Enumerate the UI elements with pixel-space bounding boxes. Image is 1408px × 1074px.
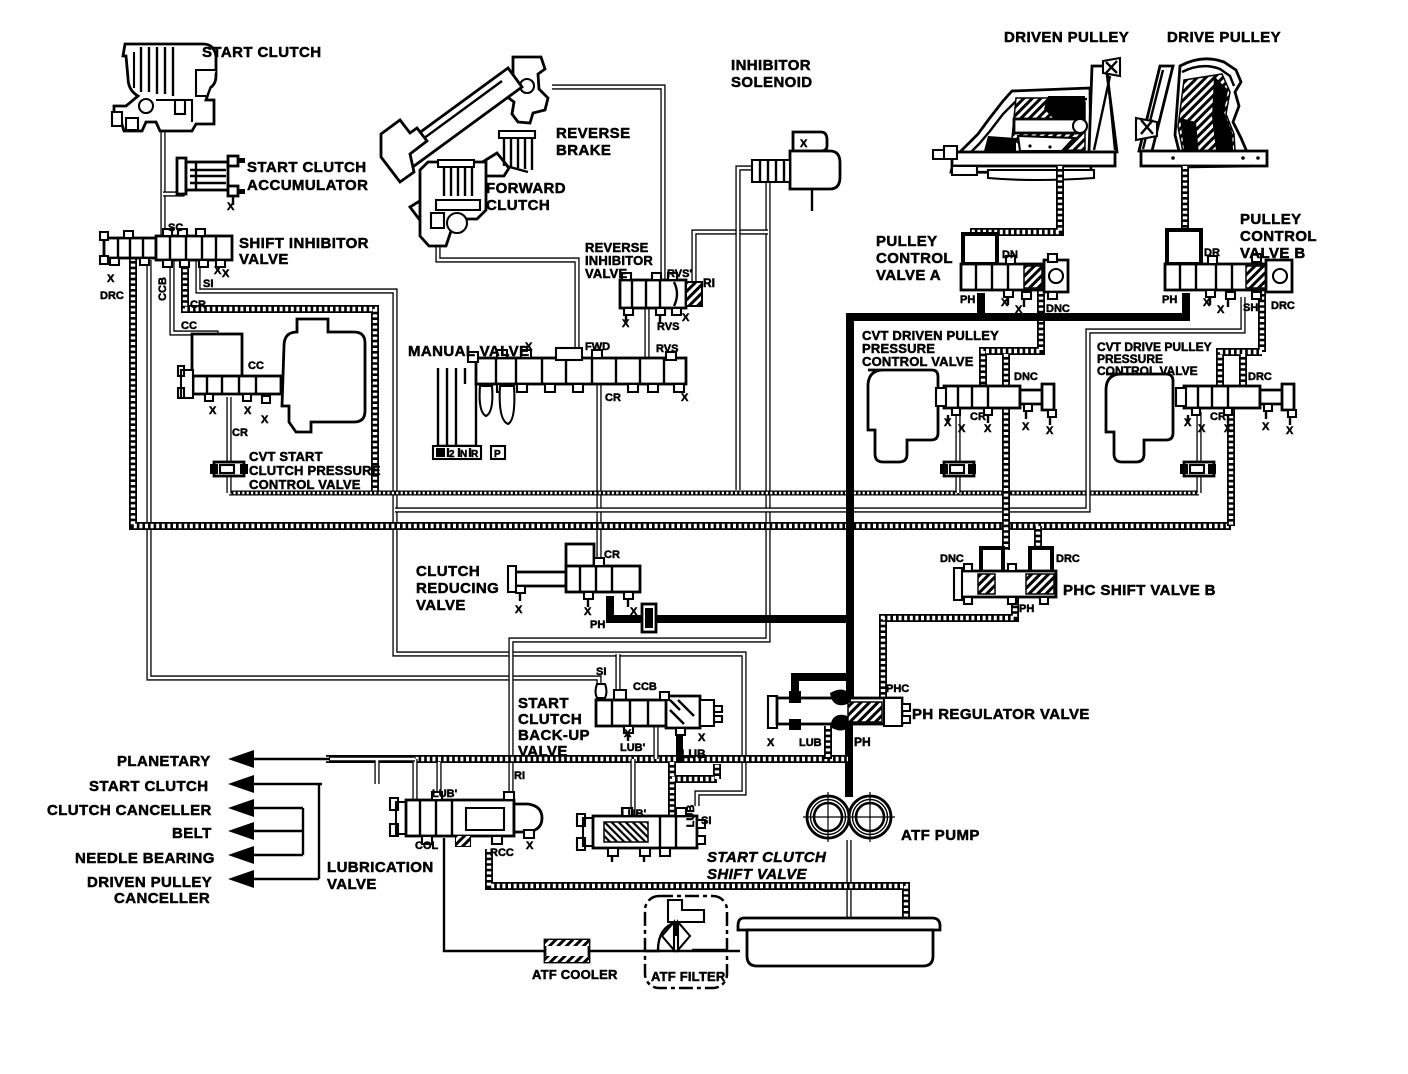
svg-text:CCB: CCB [157,277,169,301]
drive pulley left fitting [1136,118,1157,140]
svg-text:CONTROL: CONTROL [1240,228,1317,245]
arrow belt [228,822,254,840]
svg-text:PHC: PHC [886,683,909,695]
ATF cooler [545,940,589,962]
svg-text:VALVE: VALVE [327,876,377,893]
driven pulley top fitting [1103,58,1120,76]
wire PH regulator to ATF pump [845,722,853,797]
manual valve lever [438,368,514,446]
svg-text:LUBRICATION: LUBRICATION [327,859,434,876]
svg-text:PH: PH [854,735,871,749]
PHC shift valve B [954,564,1056,604]
svg-text:PH: PH [590,619,605,631]
svg-text:LUB': LUB' [620,742,646,754]
svg-text:VALVE B: VALVE B [1240,245,1306,262]
svg-text:DNC: DNC [1046,303,1070,315]
svg-text:CONTROL VALVE: CONTROL VALVE [862,354,974,369]
svg-text:RCC: RCC [490,847,514,859]
svg-text:RVS: RVS [656,343,678,355]
svg-text:CR: CR [970,411,986,423]
wire CR distribution line [229,491,1199,496]
svg-text:PH: PH [1019,603,1034,615]
svg-text:RI: RI [703,276,715,290]
svg-text:X: X [261,414,269,426]
svg-text:X: X [515,604,523,616]
wire drive PCV restrictor drain [1196,412,1201,493]
svg-text:PHC SHIFT VALVE B: PHC SHIFT VALVE B [1063,582,1216,599]
svg-text:VALVE: VALVE [416,597,466,614]
drive pulley bottom plate [1141,151,1267,166]
manual valve body [468,348,686,392]
wire CC valve drain through restrictor [226,397,231,493]
wire driven PCV restrictor drain [955,477,960,493]
wire DRC hatched main band [133,258,1231,526]
svg-text:CC: CC [181,320,197,332]
CVT start clutch pressure control valve CC chamber [192,334,242,378]
driven PCV spool [936,384,1056,425]
svg-text:START CLUTCH: START CLUTCH [202,44,322,61]
svg-text:INHIBITOR: INHIBITOR [731,57,811,74]
svg-text:SI: SI [701,815,711,827]
svg-text:CONTROL: CONTROL [876,250,953,267]
svg-text:COL: COL [415,840,439,852]
svg-text:X: X [214,265,222,277]
ATF strainer pan [738,918,940,966]
svg-text:BRAKE: BRAKE [556,142,611,159]
svg-text:ATF COOLER: ATF COOLER [532,967,618,982]
svg-text:START: START [518,695,569,712]
svg-text:X: X [1046,425,1054,437]
svg-text:R: R [471,449,479,460]
svg-text:PH: PH [960,294,975,306]
svg-text:CONTROL VALVE: CONTROL VALVE [249,477,361,492]
svg-text:SH: SH [1243,302,1258,314]
wire DRC from pulley control valve B cap [1220,291,1262,526]
driven pulley cone disc [1089,66,1117,152]
svg-text:X: X [525,341,533,353]
svg-text:X: X [984,423,992,435]
wire inhibitor solenoid drop to CR line [738,168,752,490]
svg-text:DRC: DRC [1248,371,1272,383]
clutch reducing valve [508,558,640,607]
wire planetary feed double [330,759,415,784]
drive PCV spool [1176,384,1296,425]
pulley control valve A [961,234,1068,307]
svg-text:X: X [1184,417,1192,429]
svg-text:DNC: DNC [940,553,964,565]
wire CR line from shift inhibitor [185,258,375,492]
svg-text:DRIVE PULLEY: DRIVE PULLEY [1167,29,1281,46]
svg-text:DRC: DRC [1271,300,1295,312]
restrictor drive PCV [1180,462,1216,476]
svg-text:X: X [526,840,534,852]
svg-text:X: X [1198,423,1206,435]
svg-text:X: X [681,392,689,404]
wire PH heavy line clutch reducing valve to regulator trunk [610,596,850,619]
svg-text:CLUTCH: CLUTCH [518,711,582,728]
svg-text:PH: PH [1162,294,1177,306]
restrictor CR drain [210,462,248,476]
svg-text:X: X [1022,421,1030,433]
restrictor driven PCV [940,462,976,476]
svg-text:DRIVEN PULLEY: DRIVEN PULLEY [87,874,212,891]
wire cooler line lubrication valve to strainer [444,838,740,951]
CVT driven pulley pressure control valve solenoid [868,370,938,462]
svg-text:X: X [222,268,230,280]
drive pulley shaft [1181,166,1189,260]
wire SI line from shift inhibitor long run [198,260,744,806]
arrow needle bearing [228,846,254,864]
svg-text:CONTROL VALVE: CONTROL VALVE [1097,364,1198,378]
wire RCC return line to strainer [489,849,906,918]
wire LUB back-up drop [676,724,683,762]
svg-text:VALVE: VALVE [239,251,289,268]
CC control valve spool [178,366,281,403]
svg-text:CR: CR [1210,411,1226,423]
svg-text:CLUTCH PRESSURE: CLUTCH PRESSURE [249,463,381,478]
ATF pump [803,792,895,842]
svg-text:CR: CR [605,392,621,404]
svg-text:DNC: DNC [1014,371,1038,383]
wire CR manual valve to clutch reducing valve [596,384,601,568]
svg-text:X: X [1286,425,1294,437]
svg-text:RI: RI [514,770,525,782]
svg-text:PULLEY: PULLEY [876,233,938,250]
drive pulley cone disc [1139,66,1173,151]
svg-text:ATF FILTER: ATF FILTER [651,969,726,984]
svg-text:CLUTCH: CLUTCH [486,197,550,214]
wire CC from shift inhibitor to CC chamber [172,258,216,340]
wire PH elbow into regulator [795,677,850,699]
svg-text:LUB': LUB' [621,808,647,820]
svg-text:CLUTCH: CLUTCH [416,563,480,580]
svg-text:X: X [800,138,808,150]
svg-text:CCB: CCB [633,681,657,693]
svg-text:X: X [682,312,690,324]
pulley control valve B [1165,230,1292,307]
svg-text:X: X [958,423,966,435]
svg-text:DN: DN [1002,249,1018,261]
PH regulator valve [768,689,910,730]
svg-text:NEEDLE BEARING: NEEDLE BEARING [75,850,215,867]
wire FWD forward clutch to manual valve [438,230,577,358]
driven pulley shaft sleeve [1014,119,1078,133]
svg-text:SC: SC [168,222,183,234]
arrow start clutch [228,775,254,793]
svg-text:SI: SI [596,666,606,678]
wire PHC hatched from PHC shift valve to regulator [883,597,1015,697]
wire pump suction to strainer [846,840,851,918]
PHC shift valve B chambers [981,548,1052,572]
svg-text:BELT: BELT [172,825,212,842]
svg-text:PLANETARY: PLANETARY [117,753,211,770]
svg-text:SHIFT VALVE: SHIFT VALVE [707,866,808,883]
svg-text:DRC: DRC [1056,553,1080,565]
driven pulley bottom plate [952,152,1115,166]
svg-text:X: X [1203,297,1211,309]
wire PH heavy top line between pulley control valves [850,293,1186,317]
reverse inhibitor valve [620,273,702,323]
wire SH line from pulley control valve B [395,297,1243,510]
arrow clutch canceller [228,799,254,817]
svg-text:SOLENOID: SOLENOID [731,74,813,91]
wire DRC band to PHC shift valve chamber [1034,526,1042,550]
wire LUB' back-up to shift valve [633,726,656,820]
CC solenoid body [282,319,365,432]
wire CCB tee to back-up valve [615,654,620,697]
svg-text:X: X [227,201,235,213]
svg-text:LUB': LUB' [432,788,458,800]
gear selector boxes [433,446,505,460]
svg-text:ACCUMULATOR: ACCUMULATOR [247,177,368,194]
svg-text:START CLUTCH: START CLUTCH [247,159,367,176]
arrow driven pulley canceller [228,870,254,888]
wire RI branch to reverse inhibitor valve [694,232,768,282]
wire LUB hatched return line [326,755,848,763]
svg-text:2: 2 [449,449,455,460]
wire DNC down to PHC shift valve [1002,404,1010,550]
svg-text:VALVE: VALVE [518,743,568,760]
svg-text:SHIFT INHIBITOR: SHIFT INHIBITOR [239,235,369,252]
node clutch canceller arrow lines [250,808,303,855]
svg-text:X: X [584,606,592,618]
driven pulley [933,58,1120,262]
svg-text:X: X [209,405,217,417]
lubrication valve [390,792,542,846]
svg-text:RVS': RVS' [667,268,692,280]
wire CCB line from shift inhibitor to back-up valve SI [149,260,599,690]
svg-text:X: X [944,417,952,429]
svg-text:START CLUTCH: START CLUTCH [707,849,827,866]
svg-text:LUB: LUB [681,747,706,761]
svg-text:LUB: LUB [685,805,697,828]
svg-text:PULLEY: PULLEY [1240,211,1302,228]
clutch reducing valve CR chamber [566,544,594,568]
svg-text:START CLUTCH: START CLUTCH [89,778,209,795]
svg-text:FORWARD: FORWARD [486,180,566,197]
wire driven PCV drain to restrictor [955,412,960,462]
svg-text:X: X [698,732,706,744]
svg-text:CC: CC [248,360,264,372]
node PH trunk vertical [846,313,854,702]
start clutch shift valve [577,808,705,862]
svg-text:DR: DR [1204,247,1220,259]
svg-text:X: X [767,737,775,749]
svg-text:CVT START: CVT START [249,449,323,464]
svg-text:MANUAL VALVE: MANUAL VALVE [408,343,529,360]
driven pulley shaft crank [974,166,1060,262]
svg-text:FWD: FWD [585,341,610,353]
shift inhibitor valve [100,229,232,267]
wire SC start clutch to shift inhibitor valve [160,128,165,236]
node start clutch arrow line [250,784,322,879]
start clutch assembly [112,44,216,131]
drive pulley [1136,59,1267,260]
wire lubrication valve feed drop [415,759,439,800]
svg-text:CR: CR [232,427,248,439]
inhibitor solenoid [752,132,840,211]
start clutch back-up valve [596,684,723,743]
svg-text:SI: SI [203,278,213,290]
svg-text:CR: CR [190,299,206,311]
svg-text:VALVE: VALVE [585,266,628,281]
svg-text:X: X [1262,421,1270,433]
wire RVS reverse inhibitor to manual valve [644,308,649,358]
restrictor PH line [642,604,656,632]
svg-text:PH REGULATOR VALVE: PH REGULATOR VALVE [912,706,1090,723]
ATF filter box [645,896,728,988]
svg-text:X: X [622,318,630,330]
wire LUB regulator drop [824,726,832,759]
svg-text:X: X [107,273,115,285]
CVT drive pulley pressure control valve solenoid [1106,374,1173,462]
node planetary arrow line [250,758,330,760]
svg-text:X: X [244,405,252,417]
svg-text:VALVE A: VALVE A [876,267,941,284]
svg-text:CLUTCH CANCELLER: CLUTCH CANCELLER [47,802,212,819]
svg-text:X: X [630,606,638,618]
svg-text:X: X [624,728,632,740]
svg-text:BACK-UP: BACK-UP [518,727,590,744]
svg-text:CR: CR [604,549,620,561]
arrow planetary [228,750,254,768]
wire RVS' reverse brake to reverse inhibitor valve [552,87,663,280]
svg-text:X: X [1015,304,1023,316]
svg-text:X: X [1224,423,1232,435]
svg-text:LUB: LUB [799,737,822,749]
svg-text:ATF PUMP: ATF PUMP [901,827,980,844]
svg-text:N: N [460,449,467,460]
svg-text:X: X [1217,304,1225,316]
svg-text:P: P [494,449,501,460]
wire SC accumulator branch [163,186,182,194]
wire RI line from solenoid to lubrication valve [511,170,768,800]
svg-text:DRC: DRC [100,290,124,302]
svg-text:X: X [1001,297,1009,309]
svg-text:RVS: RVS [657,321,679,333]
start clutch accumulator [177,156,245,205]
svg-text:REVERSE: REVERSE [556,125,631,142]
svg-text:REDUCING: REDUCING [416,580,499,597]
svg-text:DRIVEN PULLEY: DRIVEN PULLEY [1004,29,1129,46]
svg-text:CANCELLER: CANCELLER [114,890,210,907]
reverse brake / forward clutch assembly [381,57,548,246]
wire DNC from pulley control valve A [983,291,1041,389]
wire LUB to shift valve [672,762,717,848]
